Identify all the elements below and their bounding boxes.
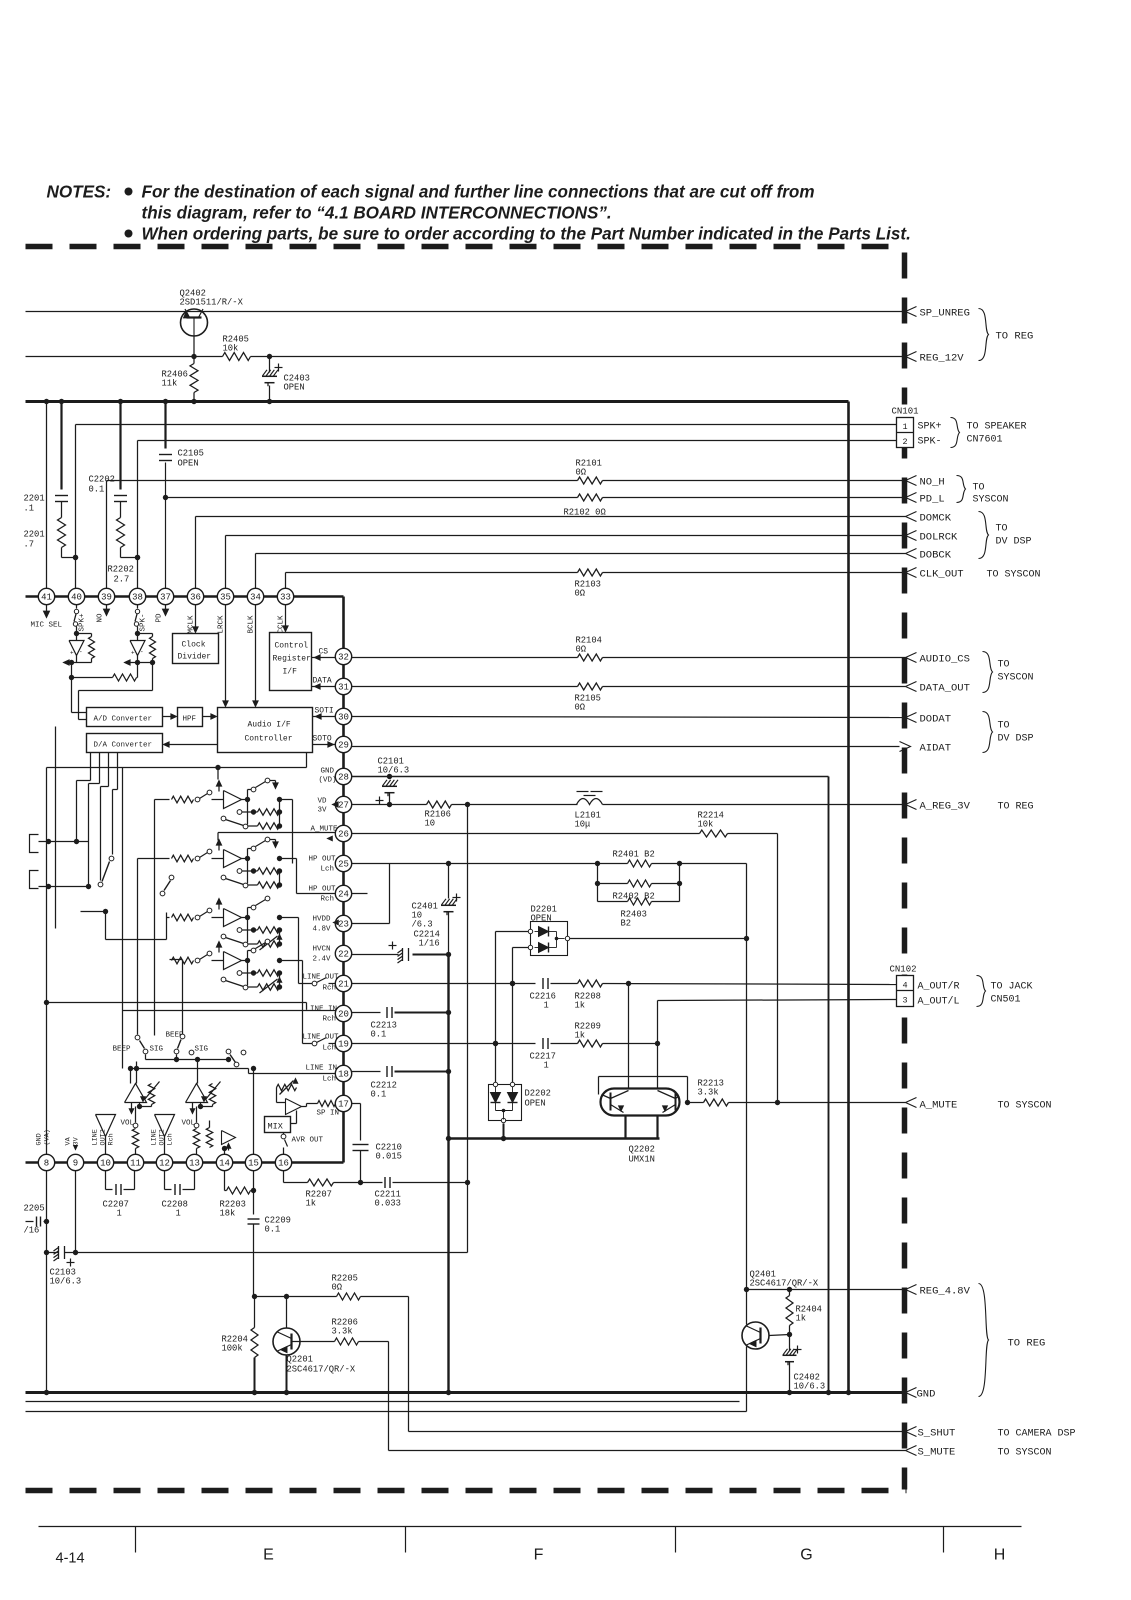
resistor R2201 xyxy=(58,518,66,548)
svg-text:Divider: Divider xyxy=(178,653,212,662)
switch pin19 xyxy=(303,1043,313,1045)
IC U2101 bottom edge xyxy=(26,1161,344,1164)
svg-text:B2: B2 xyxy=(621,919,632,929)
svg-text:38: 38 xyxy=(132,593,143,603)
svg-text:I/F: I/F xyxy=(283,668,298,677)
arrow DOBCK xyxy=(906,549,917,559)
wire VD node xyxy=(452,804,578,806)
svg-text:TO REG: TO REG xyxy=(998,802,1034,813)
svg-text:26: 26 xyxy=(338,830,349,840)
switch beep 2 xyxy=(180,1034,185,1039)
svg-text:28: 28 xyxy=(338,773,349,783)
svg-text:CCLK: CCLK xyxy=(278,615,286,634)
wire internal A_MUTE line xyxy=(218,832,336,834)
svg-text:0Ω: 0Ω xyxy=(575,589,586,599)
wire Q2201 base to R2206 xyxy=(292,1341,335,1343)
wire internal rail y767 xyxy=(47,767,307,769)
resistor R2213 xyxy=(704,1099,729,1106)
wire MCLK to Clock Divider xyxy=(195,605,197,630)
wire pin29 to AIDAT xyxy=(352,746,900,748)
wire DAC column d xyxy=(117,753,119,790)
svg-text:GND: GND xyxy=(917,1389,936,1401)
wire DOBCK net xyxy=(256,553,906,555)
svg-text:10: 10 xyxy=(100,1159,111,1169)
label PD + arrow xyxy=(165,605,167,612)
wire mute drop L xyxy=(628,984,630,1089)
svg-text:0.1: 0.1 xyxy=(371,1090,387,1100)
svg-text:36: 36 xyxy=(190,593,201,603)
svg-text:HVDD: HVDD xyxy=(313,916,332,924)
wire pin25 HP Lch line xyxy=(352,863,598,865)
switch sel A xyxy=(98,882,103,887)
capacitor C2103 xyxy=(58,1246,60,1259)
resistor R2207 xyxy=(308,1179,334,1186)
svg-text:PD: PD xyxy=(156,613,164,623)
svg-text:4-14: 4-14 xyxy=(56,1551,85,1567)
resistor SP IN series xyxy=(307,1103,318,1105)
wire HPF to Audio I/F xyxy=(203,716,214,718)
svg-text:10/6.3: 10/6.3 xyxy=(794,1382,826,1392)
wire D2201 out xyxy=(570,938,747,940)
buffer LINE OUT2 Lch (pin12) xyxy=(155,1115,175,1137)
svg-text:Rch: Rch xyxy=(323,985,337,993)
connector CN102 xyxy=(897,976,914,1007)
wire C2201 drop xyxy=(60,402,62,490)
svg-text:16: 16 xyxy=(278,1159,289,1169)
svg-text:LINE IN: LINE IN xyxy=(306,1065,338,1073)
switch pin40 SPK+ xyxy=(76,605,78,609)
IC top pin row 41-33 xyxy=(38,588,54,604)
footer rule xyxy=(39,1526,1022,1528)
svg-text:SYSCON: SYSCON xyxy=(973,495,1009,506)
resistor R2101 xyxy=(578,477,603,484)
resistor R2405 xyxy=(223,353,251,361)
label NO + arrow xyxy=(106,605,108,612)
svg-text:41: 41 xyxy=(41,593,52,603)
wire cell1 arrow to rail xyxy=(217,768,219,780)
capacitor C2401 xyxy=(448,864,450,899)
svg-text:TO: TO xyxy=(998,721,1010,732)
svg-text:3.3k: 3.3k xyxy=(332,1327,353,1337)
svg-text:Lch: Lch xyxy=(323,1076,337,1084)
capacitor C2205 (cut) xyxy=(26,1221,34,1223)
wire internal column x55 xyxy=(55,727,57,929)
wire Audio I/F to D/A xyxy=(167,744,218,746)
capacitor C2101 xyxy=(382,785,397,787)
svg-text:24: 24 xyxy=(338,890,349,900)
wire D2201 in lower xyxy=(513,947,529,949)
wire A_OUT/L net xyxy=(658,1000,898,1001)
resistor R2103 xyxy=(578,569,603,576)
resistor R2104 xyxy=(578,654,603,661)
resistor R2205 xyxy=(337,1293,361,1300)
arrow DOMCK xyxy=(906,512,917,522)
wire vol drop 1 xyxy=(136,1062,138,1084)
wire cell2 out to pin24 xyxy=(280,858,297,860)
svg-text:SPK-: SPK- xyxy=(140,613,148,631)
svg-text:DATA_OUT: DATA_OUT xyxy=(920,683,970,695)
switch beep 3 xyxy=(226,1049,231,1054)
svg-text:D2202: D2202 xyxy=(525,1089,551,1099)
wire S_SHUT xyxy=(409,1431,906,1433)
svg-text:3V: 3V xyxy=(73,1136,81,1145)
wire pin9 drop xyxy=(75,1171,77,1253)
svg-text:4: 4 xyxy=(902,981,907,991)
svg-text:A/D Converter: A/D Converter xyxy=(94,716,153,724)
svg-text:UMX1N: UMX1N xyxy=(629,1155,655,1165)
IC U2101 right edge xyxy=(342,597,345,1163)
wire Q2402 emitter xyxy=(193,336,195,357)
svg-text:E: E xyxy=(263,1547,274,1564)
svg-text:LINE: LINE xyxy=(151,1129,159,1145)
svg-text:/16: /16 xyxy=(24,1226,40,1236)
capacitor C2211 xyxy=(384,1177,386,1188)
capacitor C2216 xyxy=(542,978,544,989)
potentiometer VOL 1 xyxy=(133,1123,138,1128)
svg-text:OPEN: OPEN xyxy=(178,459,199,469)
arrow DATA_OUT xyxy=(906,682,917,692)
wire VD/VA tie x467 xyxy=(467,805,469,1183)
op-amp mic B (below pin 38) xyxy=(137,627,139,633)
arrow CLK_OUT xyxy=(906,568,917,578)
resistor R2214 xyxy=(700,830,728,837)
wire C2105 drop xyxy=(164,402,166,449)
svg-text:DODAT: DODAT xyxy=(920,714,952,726)
svg-text:34: 34 xyxy=(250,593,261,603)
svg-text:2.4V: 2.4V xyxy=(313,956,332,964)
svg-text:11: 11 xyxy=(130,1159,141,1169)
svg-text:11k: 11k xyxy=(162,379,178,389)
svg-text:HVCN: HVCN xyxy=(313,946,331,954)
wire cell3 out to pin21 xyxy=(280,917,299,919)
svg-text:10k: 10k xyxy=(223,344,239,354)
svg-text:DOBCK: DOBCK xyxy=(920,550,952,562)
svg-text:BEEP: BEEP xyxy=(113,1046,132,1054)
svg-text:SPK+: SPK+ xyxy=(79,613,87,632)
svg-text:2: 2 xyxy=(902,437,907,447)
wire AGND bus y1138 xyxy=(449,1137,660,1139)
transistor Q2201 xyxy=(273,1328,300,1355)
label SOTO + wire xyxy=(313,744,336,746)
svg-text:H: H xyxy=(994,1547,1006,1564)
svg-text:(VD): (VD) xyxy=(319,777,337,785)
wire cell3 input feed xyxy=(167,917,170,919)
op-amp VOL 2 xyxy=(186,1084,208,1103)
svg-text:SIG: SIG xyxy=(150,1046,164,1054)
svg-text:22: 22 xyxy=(338,950,349,960)
svg-text:OPEN: OPEN xyxy=(531,914,552,924)
block Control Register I/F xyxy=(270,633,312,691)
capacitor C2403 xyxy=(269,357,271,373)
wire GND drop x828 xyxy=(828,777,830,1393)
block MIX xyxy=(265,1117,291,1133)
wire REG_4.8V xyxy=(747,1289,906,1291)
svg-text:Register: Register xyxy=(273,655,312,664)
svg-text:2.7: 2.7 xyxy=(114,575,130,585)
svg-text:TO SYSCON: TO SYSCON xyxy=(998,1448,1052,1459)
op-amp cell 3 (LINE OUT Rch) xyxy=(218,901,220,910)
svg-text:32: 32 xyxy=(338,653,349,663)
wire pin8 GND drop xyxy=(46,1171,48,1393)
wire pin41 riser xyxy=(46,402,48,589)
wire DAC column b xyxy=(99,753,101,784)
resistor R2202 xyxy=(117,518,125,548)
svg-text:9: 9 xyxy=(73,1159,78,1169)
svg-text:TO REG: TO REG xyxy=(1008,1338,1046,1350)
svg-text:10: 10 xyxy=(425,819,436,829)
wire pin28 GND(VD) xyxy=(352,776,829,778)
wire SPK- net xyxy=(138,440,898,442)
wire pin26 A_MUTE to R2214 xyxy=(352,833,700,835)
wire Q2401 collector xyxy=(746,1290,748,1325)
op-amp cell 2 (HP Rch) xyxy=(218,842,220,851)
wire SP_UNREG xyxy=(26,311,906,313)
arrow DODAT xyxy=(906,713,917,723)
svg-text:(VA): (VA) xyxy=(44,1129,52,1145)
svg-text:1: 1 xyxy=(117,1209,122,1219)
svg-text:D/A Converter: D/A Converter xyxy=(94,742,153,750)
svg-text:TO SPEAKER: TO SPEAKER xyxy=(967,422,1027,433)
svg-text:SOTO: SOTO xyxy=(313,735,332,744)
svg-text:3: 3 xyxy=(902,996,907,1006)
svg-text:39: 39 xyxy=(101,593,112,603)
wire R2209 to mute xyxy=(603,1043,658,1045)
svg-text:1: 1 xyxy=(902,422,907,432)
brace TO DV DSP (dat) xyxy=(983,712,993,753)
svg-text:0Ω: 0Ω xyxy=(575,703,586,713)
wire pin27 VD xyxy=(352,804,427,806)
svg-text:2201: 2201 xyxy=(24,494,45,504)
wire PD_L net xyxy=(166,497,578,499)
svg-text:DV DSP: DV DSP xyxy=(998,734,1034,745)
wire Q2202 base loop xyxy=(599,1076,688,1078)
wire pin15 drop xyxy=(253,1171,255,1215)
svg-text:1: 1 xyxy=(544,1061,549,1071)
svg-text:F: F xyxy=(534,1547,544,1564)
footer tick 2 xyxy=(405,1527,407,1553)
svg-text:OPEN: OPEN xyxy=(284,383,305,393)
IC U2101 top edge xyxy=(26,595,344,598)
svg-text:Lch: Lch xyxy=(321,866,335,874)
op-amp cell 4 (LINE OUT Lch) xyxy=(218,944,220,953)
wire NO_H net xyxy=(107,480,578,482)
svg-text:CS: CS xyxy=(319,648,329,657)
wire pin12 drop xyxy=(164,1171,166,1190)
wire C2202 drop xyxy=(119,402,121,490)
wire R2205 node line xyxy=(255,1296,337,1298)
note bullet 2 xyxy=(125,230,133,238)
svg-text:14: 14 xyxy=(219,1159,230,1169)
svg-text:A_REG_3V: A_REG_3V xyxy=(920,801,971,813)
svg-text:2SC4617/QR/-X: 2SC4617/QR/-X xyxy=(750,1279,819,1289)
svg-text:.7: .7 xyxy=(24,540,35,550)
wire S_MUTE xyxy=(389,1450,906,1452)
svg-text:Control: Control xyxy=(275,642,309,651)
wire cell1 input feed xyxy=(155,799,170,801)
svg-text:Audio I/F: Audio I/F xyxy=(248,721,291,730)
brace TO REG (bottom) xyxy=(979,1284,989,1397)
svg-text:10/6.3: 10/6.3 xyxy=(50,1277,82,1287)
wire VA supply line y1252 xyxy=(76,1252,468,1254)
svg-text:37: 37 xyxy=(160,593,171,603)
resistor R2105 xyxy=(578,683,603,690)
svg-text:10μ: 10μ xyxy=(575,820,591,830)
svg-text:1: 1 xyxy=(544,1001,549,1011)
resistor R2204 xyxy=(254,1297,256,1328)
svg-text:1k: 1k xyxy=(796,1314,807,1324)
svg-text:0.1: 0.1 xyxy=(371,1030,387,1040)
svg-text:OUT2: OUT2 xyxy=(159,1129,167,1145)
wire pin24 HP Rch line xyxy=(352,893,368,895)
wire pin14 drop xyxy=(224,1171,226,1191)
resistor R2203 xyxy=(227,1187,251,1194)
note bullet 1 xyxy=(125,188,133,196)
wire shield line 1 xyxy=(26,1401,740,1403)
wire pin32 to AUDIO_CS xyxy=(352,657,578,659)
op-amp VOL 1 xyxy=(125,1084,147,1103)
svg-text:29: 29 xyxy=(338,741,349,751)
svg-text:0Ω: 0Ω xyxy=(576,468,587,478)
svg-text:13: 13 xyxy=(189,1159,200,1169)
wire shield line 2 xyxy=(26,1411,747,1413)
wire LRCK to Audio I/F xyxy=(225,605,227,704)
svg-text:LINE: LINE xyxy=(92,1129,100,1145)
potentiometer SP IN xyxy=(277,1084,297,1090)
svg-text:Lch: Lch xyxy=(167,1133,175,1145)
wire pin21 LINE OUT Rch xyxy=(352,983,536,985)
arrow A_MUTE xyxy=(906,1098,917,1108)
arrow PD_L xyxy=(906,493,917,503)
arrow A_REG_3V xyxy=(906,800,917,810)
svg-text:Q2201: Q2201 xyxy=(287,1355,313,1365)
wire AGND rail xyxy=(447,955,449,1393)
wire MIX to SP amp xyxy=(291,1123,297,1125)
svg-text:REG_4.8V: REG_4.8V xyxy=(920,1286,971,1298)
wire CLK_OUT net xyxy=(286,572,578,574)
brace TO DV DSP (DOxxx) xyxy=(979,512,989,559)
svg-text:-: - xyxy=(79,649,83,656)
svg-text:A_MUTE: A_MUTE xyxy=(920,1100,958,1112)
svg-text:HPF: HPF xyxy=(183,716,197,724)
svg-text:0Ω: 0Ω xyxy=(332,1283,343,1293)
svg-text:A_OUT/R: A_OUT/R xyxy=(918,981,960,993)
wire cell4 out to pin19 xyxy=(280,960,303,962)
svg-text:Rch: Rch xyxy=(321,896,335,904)
svg-text:1k: 1k xyxy=(575,1031,586,1041)
arrow REG_4.8V xyxy=(906,1285,917,1295)
capacitor C2213 xyxy=(386,1007,388,1018)
transistor Q2402 xyxy=(181,309,208,336)
wire R2201 to pin40 xyxy=(62,557,76,559)
svg-text:18: 18 xyxy=(338,1070,349,1080)
svg-text:S_SHUT: S_SHUT xyxy=(918,1428,956,1440)
capacitor C2217 xyxy=(542,1038,544,1049)
wire cell4 input feed xyxy=(170,959,183,961)
svg-text:DOLRCK: DOLRCK xyxy=(920,532,959,544)
op-amp SP IN xyxy=(286,1099,302,1115)
capacitor C2212 xyxy=(386,1066,388,1077)
wire CCLK to Control Register xyxy=(285,605,287,629)
wire pin23 HVDD xyxy=(352,923,390,925)
connector CN101 xyxy=(897,418,914,448)
diode pack D2202 xyxy=(489,1085,522,1121)
capacitor C2208 xyxy=(174,1184,176,1195)
wire pin22 HVCN xyxy=(352,954,399,956)
block HPF xyxy=(178,708,203,727)
resistor mic gain (between amps) xyxy=(72,677,113,679)
svg-text:NO: NO xyxy=(97,613,105,623)
svg-text:30: 30 xyxy=(338,713,349,723)
diode pack D2201 xyxy=(531,922,568,956)
capacitor C2202 xyxy=(114,495,127,497)
wire mic B to A/D xyxy=(152,663,154,691)
wire pin18 LINE IN Lch xyxy=(352,1071,381,1073)
svg-text:NO_H: NO_H xyxy=(920,477,945,489)
svg-text:SOTI: SOTI xyxy=(315,707,334,716)
arrow DOLRCK xyxy=(906,531,917,541)
svg-text:TO REG: TO REG xyxy=(996,331,1034,343)
svg-text:10k: 10k xyxy=(698,820,714,830)
footer tick 4 xyxy=(943,1527,945,1553)
svg-text:100k: 100k xyxy=(222,1344,243,1354)
switch AVR OUT xyxy=(281,1134,286,1139)
buffer LINE OUT2 Rch (pin10) xyxy=(96,1115,116,1137)
svg-text:20: 20 xyxy=(338,1010,349,1020)
brace TO REG (top) xyxy=(979,309,989,361)
label SOTI + wire xyxy=(313,716,336,718)
capacitor C2207 xyxy=(115,1184,117,1195)
wire Q2202 emitters xyxy=(624,1116,626,1139)
block A/D Converter xyxy=(87,708,163,727)
svg-text:VOL: VOL xyxy=(121,1120,135,1128)
svg-text:VA: VA xyxy=(65,1136,73,1145)
label CN102 xyxy=(888,963,922,975)
svg-text:23: 23 xyxy=(338,920,349,930)
svg-text:15: 15 xyxy=(248,1159,259,1169)
resistor R2106 xyxy=(427,801,452,808)
wire A_MUTE out xyxy=(688,1102,704,1104)
svg-text:Lch: Lch xyxy=(323,1045,337,1053)
svg-text:A_OUT/L: A_OUT/L xyxy=(918,996,960,1008)
wire mic A to A/D xyxy=(71,678,73,713)
wire beep bus 2 xyxy=(130,1069,132,1084)
svg-text:TO SYSCON: TO SYSCON xyxy=(987,570,1041,581)
arrow AIDAT xyxy=(900,742,911,752)
wire A/D to HPF xyxy=(163,716,174,718)
svg-text:21: 21 xyxy=(338,980,349,990)
svg-text:BCLK: BCLK xyxy=(248,615,256,634)
wire pin37 riser xyxy=(165,463,167,589)
wire DAC column c xyxy=(108,753,110,787)
wire BCLK to Audio I/F xyxy=(255,605,257,704)
wire R2202 to pin38 xyxy=(121,557,138,559)
capacitor C2201 xyxy=(55,495,68,497)
footer tick 3 xyxy=(675,1527,677,1553)
svg-text:2205: 2205 xyxy=(24,1204,45,1214)
label MIC SEL + arrow xyxy=(46,605,48,614)
svg-text:3V: 3V xyxy=(318,807,328,815)
footer tick 1 xyxy=(135,1527,137,1553)
wire R2214 drop x777 xyxy=(728,833,778,835)
resistor R2209 xyxy=(578,1040,603,1047)
svg-text:HP OUT: HP OUT xyxy=(309,886,337,894)
svg-text:+: + xyxy=(70,650,74,657)
svg-text:31: 31 xyxy=(338,683,349,693)
svg-text:C2202: C2202 xyxy=(89,475,115,485)
svg-text:GND: GND xyxy=(36,1133,44,1145)
svg-text:4.8V: 4.8V xyxy=(313,926,332,934)
svg-text:.1: .1 xyxy=(24,504,35,514)
